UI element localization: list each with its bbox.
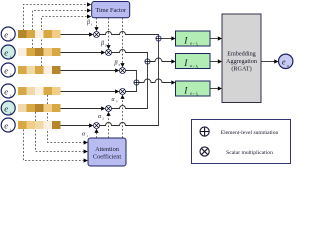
arrowhead into scalar mult 6 <box>89 123 93 127</box>
dashed link bar4 to Attention Coefficient <box>48 95 84 143</box>
label beta3 <box>114 61 121 67</box>
wire row6 bar to scalar mult 6 <box>61 125 90 127</box>
dashed link bar3 to Time Factor <box>42 17 87 67</box>
embedding vector bar 5 <box>18 104 61 112</box>
dashed line Attention Coefficient to scalar mult (alpha2) <box>108 116 110 138</box>
arrowhead into scalar mult 5 <box>101 106 105 110</box>
wire row6 after scalar mult rising to summation 1 <box>100 41 159 125</box>
wire row3 after scalar mult to summation 3 <box>126 71 137 80</box>
node e_i2 top (highlighted) <box>1 45 15 60</box>
scalar mult symbol 4 <box>120 89 126 95</box>
svg-text:(RGAT): (RGAT) <box>231 65 251 72</box>
scalar mult symbol 5 <box>106 106 112 112</box>
embedding vector bar 6 <box>18 121 61 129</box>
arrowhead into Attention Coefficient input 3 <box>84 158 88 162</box>
Attention Coefficient box <box>88 138 126 166</box>
arrowhead into aggregation 2 <box>218 59 222 63</box>
summation symbol 1 <box>156 36 161 41</box>
arrowhead into Time Factor input 3 <box>87 14 91 18</box>
arrowhead into Time Factor input 1 <box>87 2 91 6</box>
arrowhead alpha3 <box>120 95 124 99</box>
green box I_u from i3 <box>176 81 211 97</box>
label beta2 <box>100 41 107 47</box>
svg-text:Aggregation: Aggregation <box>226 58 257 65</box>
legend summation symbol <box>200 127 209 136</box>
dashed line Attention Coefficient to scalar mult (alpha3) <box>122 99 124 138</box>
arrowhead into green box 2 <box>171 59 175 63</box>
arrowhead into aggregation 3 <box>218 86 222 90</box>
svg-text:β: β <box>86 20 90 26</box>
label alpha2 <box>98 114 104 120</box>
dashed link bar1 to Time Factor <box>24 5 87 31</box>
scalar mult symbol 6 <box>94 123 100 129</box>
arrowhead beta2 <box>106 45 110 49</box>
dashed link bar2 to Time Factor <box>33 11 87 49</box>
legend box <box>192 120 291 164</box>
label beta1 <box>86 20 93 26</box>
dashed line Time Factor to scalar mult 2 <box>108 18 110 46</box>
Embedding Aggregation (RGAT) box <box>222 14 261 103</box>
wire summation 2 to green box 2 <box>150 58 171 61</box>
svg-text:e: e <box>4 48 8 57</box>
wire row1 after scalar mult to summation 1 <box>100 32 159 36</box>
wire summation 1 to green box 1 <box>161 38 171 40</box>
summation symbol 3 <box>134 80 139 85</box>
arrowhead into green box 1 <box>171 36 175 40</box>
label alpha3 <box>112 97 118 103</box>
svg-text:Embedding: Embedding <box>227 51 256 58</box>
summation symbol 2 <box>145 59 150 64</box>
arrowhead into aggregation 1 <box>218 36 222 40</box>
green box I_u from i2 <box>176 54 211 70</box>
embedding vector bar 1 <box>18 30 61 38</box>
embedding vector bar 2 <box>18 48 61 56</box>
svg-text:e: e <box>4 66 8 75</box>
svg-text:e: e <box>4 30 8 39</box>
arrowhead beta1 <box>94 27 98 31</box>
scalar mult symbol 3 <box>120 68 126 74</box>
svg-text:Scalar multiplication: Scalar multiplication <box>226 150 273 156</box>
arrowhead into scalar mult 4 <box>115 89 119 93</box>
arrowhead into scalar mult 3 <box>115 68 119 72</box>
arrowhead alpha1 <box>94 129 98 133</box>
arrowhead into Attention Coefficient input 1 <box>84 140 88 144</box>
svg-text:Attention: Attention <box>95 146 120 153</box>
wire aggregation to output node <box>261 61 274 63</box>
dashed line Time Factor to scalar mult 1 <box>96 18 98 28</box>
wire row5 bar to scalar mult 5 <box>61 108 102 110</box>
svg-text:e: e <box>4 121 8 130</box>
dashed link bar6 to Attention Coefficient <box>24 130 84 161</box>
svg-text:1: 1 <box>91 22 93 26</box>
node e_i3 top <box>1 63 15 78</box>
arrowhead beta3 <box>120 63 124 67</box>
svg-text:Coefficient: Coefficient <box>93 153 121 160</box>
node e_i3 bottom <box>1 84 15 99</box>
embedding vector bar 4 <box>18 87 61 95</box>
wire row3 bar to scalar mult 3 <box>61 70 116 72</box>
svg-text:2: 2 <box>105 43 107 47</box>
wire row2 bar to scalar mult 2 <box>61 52 102 54</box>
output node e_u <box>279 54 293 68</box>
arrowhead into Time Factor input 2 <box>87 8 91 12</box>
node e_i1 bottom <box>1 118 15 133</box>
svg-text:β: β <box>114 61 118 67</box>
svg-text:e: e <box>4 104 8 113</box>
node e_i2 bottom (highlighted) <box>1 101 15 116</box>
wire row4 after scalar mult rising to summation 3 <box>126 85 137 91</box>
dashed line Attention Coefficient to scalar mult (alpha1) <box>96 133 98 138</box>
arrowhead into green box 3 <box>171 80 175 84</box>
wire green box 1 to aggregation <box>210 38 218 40</box>
svg-text:e: e <box>4 87 8 96</box>
wire green box 2 to aggregation <box>210 61 218 63</box>
wire row2 after scalar mult to summation 2 <box>112 50 148 59</box>
wire green box 3 to aggregation <box>210 88 218 90</box>
wire row5 after scalar mult rising to summation 2 <box>112 64 148 108</box>
scalar mult symbol 1 <box>94 32 100 38</box>
green box I_u from i1 <box>176 31 211 47</box>
arrowhead into scalar mult 2 <box>101 50 105 54</box>
dashed line Time Factor to scalar mult 3 <box>122 18 124 64</box>
svg-text:3: 3 <box>118 63 120 67</box>
svg-text:1: 1 <box>86 134 88 138</box>
svg-text:Time Factor: Time Factor <box>95 7 127 14</box>
svg-text:e: e <box>282 57 286 66</box>
svg-text:u: u <box>287 63 289 68</box>
wire row1 bar to scalar mult 1 <box>61 34 90 36</box>
label alpha1 <box>82 132 88 138</box>
arrowhead into output node <box>274 59 278 63</box>
svg-text:2: 2 <box>102 116 104 120</box>
svg-text:β: β <box>100 41 104 47</box>
svg-text:Element-level summation: Element-level summation <box>221 130 279 136</box>
dashed link bar5 to Attention Coefficient <box>36 112 84 152</box>
wire summation 3 to green box 3 <box>139 79 171 82</box>
arrowhead alpha2 <box>106 112 110 116</box>
arrowhead into Attention Coefficient input 2 <box>84 149 88 153</box>
scalar mult symbol 2 <box>106 50 112 56</box>
svg-text:3: 3 <box>116 99 118 103</box>
arrowhead into scalar mult 1 <box>89 32 93 36</box>
wire row4 bar to scalar mult 4 <box>61 91 116 93</box>
embedding vector bar 3 <box>18 66 61 74</box>
legend scalar mult symbol <box>200 147 209 156</box>
node e_i1 top <box>1 27 15 42</box>
Time Factor box <box>92 2 130 18</box>
